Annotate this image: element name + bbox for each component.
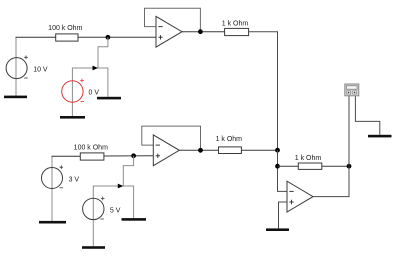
wire R2 to right bus [249,32,278,151]
svg-text:100 k Ohm: 100 k Ohm [48,25,82,32]
wire U3 output up to node N6 [313,166,349,196]
resistor R3 100 k Ohm [80,153,104,160]
arrow into node at jog2 [118,184,124,189]
resistor R4 1 k Ohm [298,163,322,169]
svg-text:1 k Ohm: 1 k Ohm [222,20,249,27]
node N4 [275,164,280,169]
resistor R5 1 k Ohm [219,147,242,154]
wire R4 to node N6 [322,165,349,167]
wire R3 to node N5 to U2 plus input [104,155,153,157]
svg-text:1 k Ohm: 1 k Ohm [216,136,243,143]
svg-text:100 k Ohm: 100 k Ohm [74,144,108,151]
op-amp U1 [156,16,182,47]
node N5 [131,153,136,158]
wire middle main from V3 to R3 [52,155,81,157]
multimeter M1 [345,84,359,96]
wire U3 plus input to ground [279,202,288,228]
svg-text:3 V: 3 V [69,176,80,183]
wire jog from N1 down to red source junction [98,37,108,97]
ground G2 right of V2 [97,97,121,100]
resistor R1 100 k Ohm [56,34,78,41]
wire N4 to R4 [278,165,299,167]
arrow into node at jog1 [93,66,99,71]
wire from V2 top to arrow junction [72,68,93,116]
wire jog from N5 down to 5V junction [123,156,133,218]
wire from V4 top to arrow junction [93,186,118,246]
ground G5 right of V4 [122,218,147,221]
resistor R2 1 k Ohm [225,28,249,35]
voltage source V3 3 V [42,168,63,189]
wire R5 to node N3 [241,149,277,151]
op-amp U2 [153,135,179,166]
svg-text:0 V: 0 V [89,89,100,96]
wire V1 vertical lead [15,37,17,96]
wire top main horizontal from V1 to R1 [16,36,56,38]
wire V3 vertical lead [51,156,53,221]
ground G3 under V2 [60,116,85,119]
voltage source V4 5 V [83,198,104,219]
wire bus N3 to N4 and to U3 minus input [278,150,288,191]
ground G8 right of meter [368,135,392,138]
node N1 [106,35,111,40]
wire U1 output to R2 [182,31,225,33]
svg-text:5 V: 5 V [110,207,121,214]
ground G4 under V3 [39,221,66,224]
voltage source V1 10 V [6,58,27,79]
node N3 [275,148,280,153]
op-amp U2 feedback loop [142,126,201,150]
ground G7 under U3 plus [266,228,289,231]
wire R1 to node N1 to op-amp U1 plus input [78,36,156,38]
node N7 [198,148,203,153]
svg-text:1 k Ohm: 1 k Ohm [295,155,322,162]
ground G6 under V4 [82,246,105,249]
voltage source V2 0 V (red) [62,81,83,102]
op-amp U1 feedback loop [145,8,201,32]
op-amp U3 [287,181,313,212]
wire meter right terminal to ground G8 [355,96,379,135]
wire U2 output to R5 [179,149,218,151]
svg-text:10 V: 10 V [33,67,48,74]
node N6 [347,164,352,169]
wire meter left terminal down to N6 [348,96,350,166]
ground G1 under V1 [4,96,27,99]
node N2 [198,29,203,34]
